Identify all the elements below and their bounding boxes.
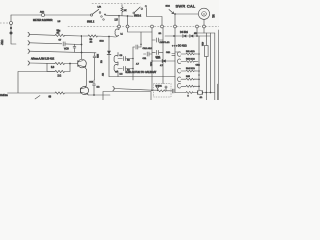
diode D5 row (152, 60, 175, 62)
svg-text:2.5: 2.5 (58, 21, 62, 23)
svg-text:4.7: 4.7 (136, 64, 140, 66)
node (132, 68, 134, 70)
resistor R11 (181, 53, 198, 55)
svg-text:C7: C7 (59, 40, 63, 42)
wire meter down (203, 19, 205, 25)
cap C9b (118, 66, 133, 70)
svg-text:1ΩΩ: 1ΩΩ (166, 5, 171, 7)
meter shunt dashed box (152, 84, 172, 98)
node (151, 60, 153, 62)
svg-text:L/R: L/R (98, 6, 102, 8)
transistor Q1 (78, 59, 87, 69)
cap row2 between 152-163 (152, 50, 163, 54)
box shield bottom left (8, 72, 56, 94)
main shield dashed line (68, 26, 219, 28)
wire (45, 14, 91, 16)
svg-text:J1Ω: J1Ω (0, 39, 4, 45)
J1 shield dash segment (0, 22, 9, 24)
svg-text:4Ω1: 4Ω1 (201, 42, 203, 47)
wire cap row (140, 32, 142, 47)
svg-text:1ΩΩ: 1ΩΩ (100, 41, 105, 43)
svg-text:SW1-2: SW1-2 (134, 16, 142, 18)
switch SW1-2 (133, 5, 147, 13)
component box right (205, 46, 209, 57)
svg-text:5: 5 (188, 96, 190, 98)
svg-text:C12: C12 (89, 81, 94, 83)
svg-text:68: 68 (49, 97, 52, 99)
node (118, 15, 120, 17)
node (198, 74, 200, 76)
wire switch output (106, 15, 134, 16)
resistor R16 (181, 85, 198, 87)
vertical sense line with diode D1 (108, 37, 110, 77)
svg-text:+A: +A (115, 71, 118, 74)
resistor R9 base Q2 (55, 92, 80, 94)
wire Q1 emitter to Q2 (85, 69, 86, 87)
svg-text:2K2: 2K2 (96, 54, 98, 59)
svg-text:+ + + DC 4ΩΩ: + + + DC 4ΩΩ (172, 45, 187, 47)
terminal x197 (196, 28, 198, 36)
diode D1 (107, 51, 111, 55)
pickup line row 3 (28, 49, 96, 53)
svg-text:4Ω: 4Ω (90, 42, 93, 44)
svg-text:2Ω: 2Ω (101, 60, 103, 63)
cap column Q2 (93, 80, 96, 95)
node (127, 15, 129, 17)
resistor R5 vertical (121, 5, 123, 16)
svg-text:1ΩR: 1ΩR (156, 57, 161, 59)
pot vertical (174, 14, 176, 25)
lamp row (175, 92, 186, 94)
svg-text:M 5ΩA: M 5ΩA (156, 84, 163, 87)
node (196, 35, 198, 37)
node (81, 52, 83, 54)
node (174, 13, 176, 15)
svg-text:4Ω: 4Ω (103, 73, 105, 76)
svg-text:1N: 1N (194, 33, 197, 35)
wire feedthrough 2 down (128, 28, 153, 32)
resistor R15 (181, 78, 198, 80)
connector lamp line (113, 86, 152, 90)
lamp PL1 (196, 90, 198, 94)
cap row between 152-163 (152, 38, 163, 42)
diode D5 (162, 59, 166, 62)
svg-text:▽C9: ▽C9 (64, 48, 69, 51)
cap on pot line (172, 54, 175, 56)
svg-text:5.MΩ ACTUΩ TO CALIBRAT: 5.MΩ ACTUΩ TO CALIBRAT (126, 71, 157, 74)
svg-text:ΩdΩm: ΩdΩm (0, 93, 9, 97)
resistor R6 (55, 62, 78, 64)
cap column right of Q1 (93, 53, 96, 81)
svg-text:2 Ω: 2 Ω (58, 75, 62, 77)
bus wire (81, 36, 83, 53)
node (140, 44, 142, 46)
pickup line row 4 (28, 61, 55, 65)
vertical x163 (162, 28, 164, 84)
coil column right (175, 52, 181, 88)
cap C9 between rows (73, 44, 76, 52)
wire to coil (109, 36, 116, 39)
lamp A102 (41, 13, 44, 16)
stray mark (35, 96, 40, 100)
vertical joining caps (132, 47, 134, 80)
svg-text:1.5: 1.5 (115, 20, 119, 22)
terminal x152 (151, 25, 154, 28)
svg-text:A/3mm A.RM L1B 4Ω2: A/3mm A.RM L1B 4Ω2 (31, 58, 55, 61)
svg-text:1Ω: 1Ω (57, 32, 60, 34)
node (198, 70, 200, 72)
wire to cal pot (147, 8, 163, 26)
svg-text:METER S.M/SWR: METER S.M/SWR (33, 19, 53, 22)
resistor R14 (181, 70, 198, 72)
svg-text:SW1 2: SW1 2 (87, 20, 95, 23)
node (81, 35, 83, 37)
svg-text:C11: C11 (143, 58, 148, 60)
svg-text:ΩSW L4Ω: ΩSW L4Ω (160, 42, 170, 44)
wire lamp right (202, 92, 215, 94)
wire pot to meter (175, 13, 199, 15)
svg-text:5.6: 5.6 (51, 67, 55, 69)
svg-text:4Ω: 4Ω (200, 97, 203, 99)
svg-text:1Ω: 1Ω (97, 87, 100, 89)
diode D4 (183, 35, 186, 38)
svg-text:C8: C8 (120, 55, 124, 57)
edge line right 2 (218, 30, 220, 100)
lower panel rectangle (103, 92, 151, 101)
coil L1 column (115, 28, 119, 37)
feedthrough terminal (126, 16, 129, 28)
cap C10 (133, 45, 141, 49)
coil L3 (114, 64, 118, 76)
svg-text:D4 5R4: D4 5R4 (180, 32, 189, 34)
svg-text:M1: M1 (212, 15, 215, 19)
node (173, 35, 175, 37)
svg-text:R11 4ΩΩ: R11 4ΩΩ (186, 51, 195, 53)
svg-text:C1Ω A1Ω: C1Ω A1Ω (143, 47, 153, 50)
wire top rail (11, 14, 41, 16)
wire Q2 emitter (89, 94, 111, 96)
svg-text:1K: 1K (124, 10, 127, 12)
terminal (161, 25, 164, 28)
svg-text:1Ω: 1Ω (127, 59, 130, 61)
wire long bottom (109, 76, 175, 78)
node (205, 92, 207, 94)
coil L2 (114, 53, 118, 66)
feedthrough terminal (118, 16, 121, 28)
top shield dashed line (92, 3, 140, 5)
svg-text:C1Ω: C1Ω (166, 52, 171, 54)
node (69, 63, 71, 65)
svg-text:R14 2ΩΩ: R14 2ΩΩ (186, 68, 195, 70)
pot SWR CAL wiper (169, 10, 174, 14)
connector J1 (10, 15, 17, 44)
cap C11 (144, 52, 153, 56)
pickup line row 1 (28, 32, 81, 36)
cap ticks lamp row (172, 89, 174, 93)
node (210, 92, 212, 94)
meter M1 (198, 8, 209, 19)
node (198, 85, 200, 87)
switch SW1 (90, 9, 106, 20)
resistor R7 parallel (47, 64, 70, 73)
svg-text:A4Ω: A4Ω (150, 62, 153, 66)
svg-text:R13 1ΩΩ: R13 1ΩΩ (186, 59, 195, 61)
svg-text:L1: L1 (121, 34, 124, 36)
svg-text:A1Ω: A1Ω (40, 10, 44, 13)
vertical x152 (151, 28, 153, 90)
node (162, 60, 164, 62)
terminal (203, 25, 206, 28)
node (81, 44, 83, 46)
edge line right (217, 84, 219, 100)
pickup line row 2 (28, 41, 82, 46)
svg-text:C1Ω: C1Ω (196, 65, 201, 67)
node (198, 79, 200, 81)
resistor R13 (181, 61, 198, 63)
node (132, 58, 134, 60)
diode row D4 (165, 35, 210, 37)
wire pot down to lamp (174, 77, 176, 93)
svg-text:2.2: 2.2 (120, 73, 124, 75)
resistor lamp (186, 92, 193, 94)
node (93, 94, 95, 96)
node (198, 53, 200, 55)
svg-text:SWR CAL: SWR CAL (176, 4, 196, 9)
node (151, 89, 153, 91)
transistor Q2 (80, 86, 88, 95)
resistor R3 (83, 35, 109, 37)
node (108, 36, 110, 38)
svg-text:R15: R15 (186, 76, 191, 78)
cap C8 (118, 56, 133, 60)
vertical x199 (198, 36, 200, 90)
diode D6 (190, 35, 193, 38)
wire (193, 92, 197, 94)
right rail wires (197, 32, 215, 34)
svg-text:1Ω: 1Ω (159, 33, 162, 35)
wire Q1 collector (81, 53, 83, 60)
